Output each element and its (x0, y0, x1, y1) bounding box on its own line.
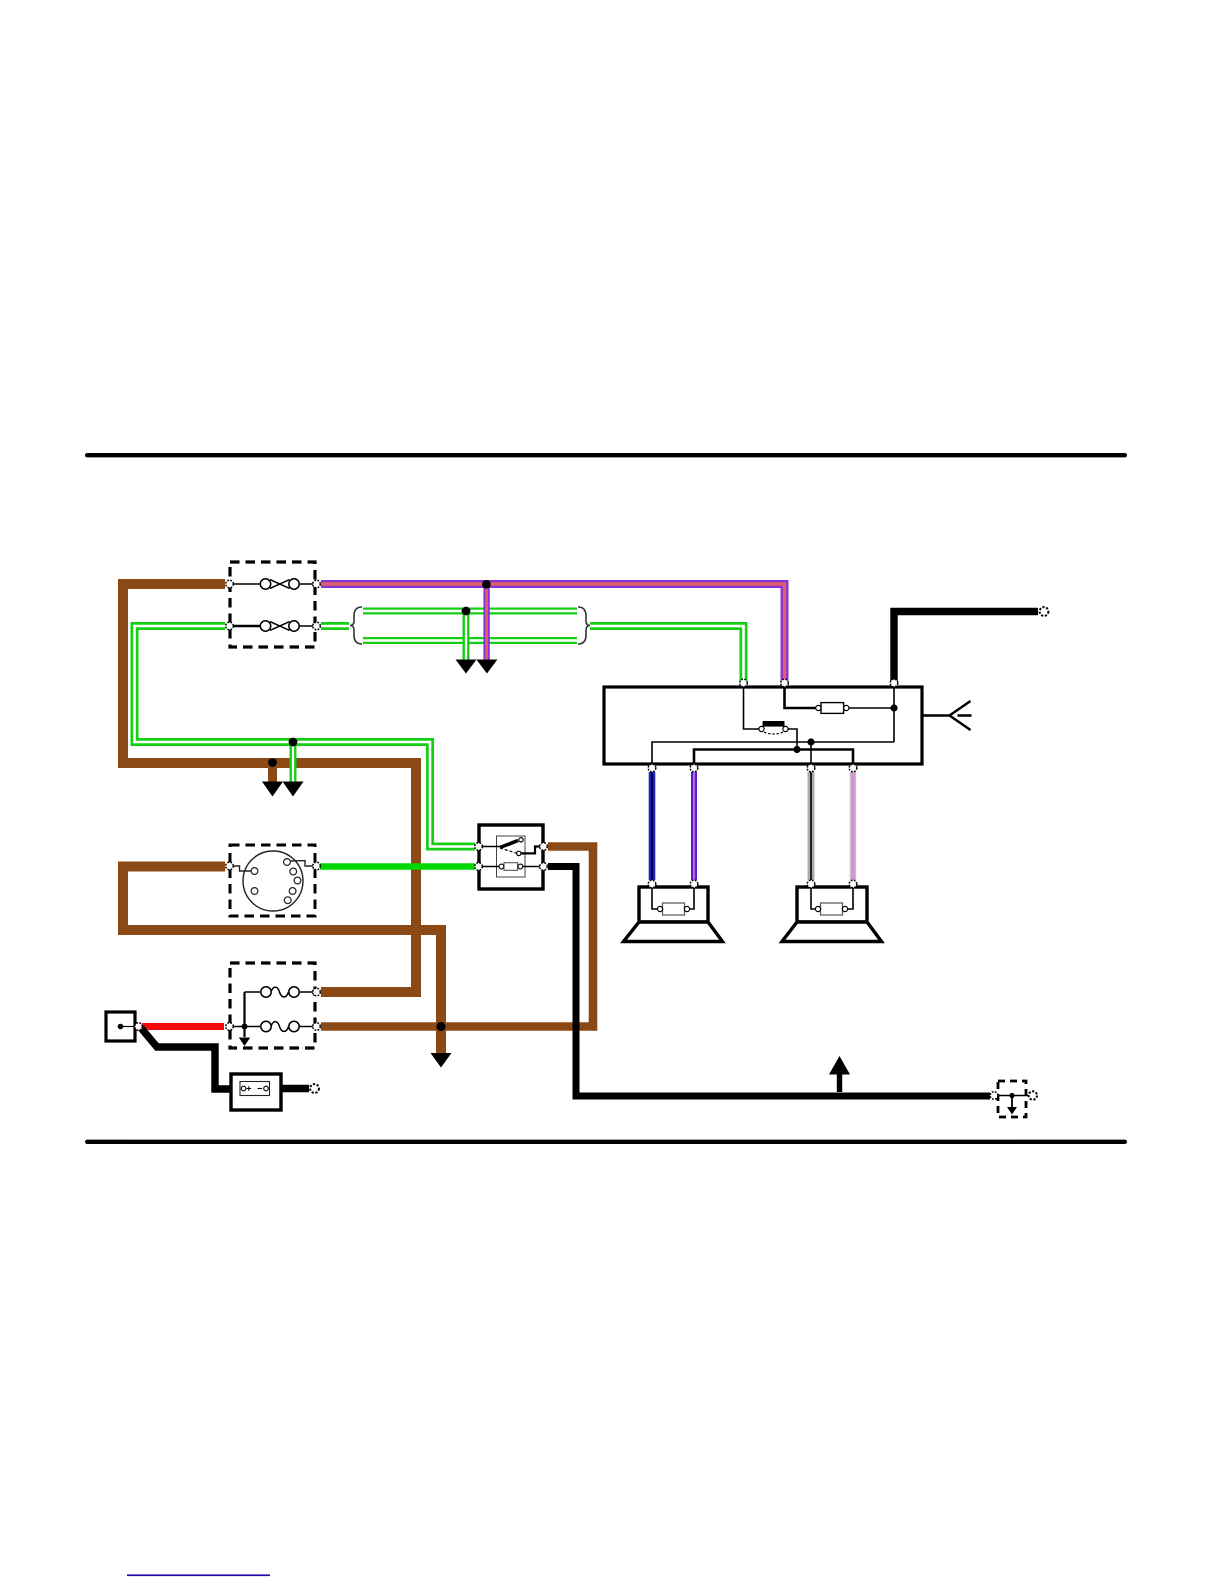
radio internal: black terminal vertical (893, 688, 895, 742)
junction dot brown 1 (268, 758, 277, 767)
radio terminals bottom (648, 764, 857, 772)
switch lower path (481, 866, 499, 868)
battery minus (258, 1088, 263, 1090)
wire brown: fusible link to radio switch (321, 847, 593, 1027)
wire black: solenoid to battery (141, 1028, 240, 1089)
radio internal: green feed to inductor (744, 688, 762, 729)
wire black: radio to antenna-lead terminal (894, 612, 1038, 684)
ignition terminals (226, 862, 321, 870)
fusible link internal arrow (239, 1038, 250, 1047)
right speaker coil (815, 903, 847, 915)
switch dashed throw (500, 848, 516, 853)
wire navy: radio to left speaker + (649, 772, 656, 880)
fusible link box (230, 963, 315, 1048)
wire black: radio switch to ground terminal (548, 867, 990, 1097)
up arrow on black wire (837, 1074, 842, 1092)
fusible link terminals (226, 988, 321, 1030)
fuse 2 (231, 621, 314, 631)
resistor (816, 703, 849, 714)
junction dot green 2 (462, 607, 471, 616)
wire red: solenoid to fusible link (142, 1023, 224, 1030)
right speaker terminals (807, 880, 857, 888)
ground arrow brown 1 (262, 782, 283, 797)
left speaker coil (657, 903, 689, 915)
ground connector dot (1009, 1093, 1014, 1098)
wire pink: radio to right speaker - (850, 772, 856, 880)
ignition switch box (230, 845, 315, 916)
footer link underline (127, 1574, 270, 1576)
switch contact to right terminal (521, 847, 542, 854)
fuse 1 (231, 579, 314, 589)
ignition wiring right (290, 861, 314, 866)
right speaker internals (811, 887, 816, 909)
wire green/white: fuse F1 right to brace (321, 622, 349, 630)
radio internal: line B (694, 750, 853, 764)
wire gray/black: radio to right speaker + (808, 772, 815, 880)
battery cell (240, 1082, 270, 1096)
radio internal: resistor to node (849, 707, 894, 709)
junction dot line A (807, 738, 814, 745)
wire purple drop to ground (483, 584, 489, 660)
wire green drop to ground (463, 611, 470, 660)
junction dot green 1 (289, 738, 298, 747)
ground connector box (998, 1081, 1026, 1117)
switch blade (500, 841, 518, 848)
switch terminals (475, 843, 548, 871)
wire green/white: bundle lower (363, 637, 577, 644)
radio terminals top (740, 679, 898, 687)
wire black: battery to ring terminal (270, 1085, 309, 1092)
ground arrow brown 2 (431, 1053, 452, 1068)
right speaker (782, 887, 882, 942)
ring terminal battery (310, 1084, 319, 1093)
wire green stub to ground (290, 742, 297, 782)
wire brown: fusebox F1 to fusible link box (123, 584, 416, 992)
brace close (578, 607, 590, 644)
left speaker (624, 887, 723, 942)
switch common line (481, 846, 500, 848)
switch resistor (499, 863, 523, 871)
wire green/white: bundle upper (363, 608, 577, 615)
inductor (759, 721, 788, 734)
fusible link internal bus (243, 992, 245, 1037)
battery plus (247, 1086, 251, 1090)
fusible link 2 (231, 1021, 314, 1031)
wire purple/red: fuse F1 to radio (321, 584, 785, 683)
radio unit box (604, 687, 922, 764)
starter solenoid box (106, 1012, 135, 1041)
fuse box F1 (230, 562, 315, 647)
terminals fuse box F1 (226, 580, 321, 630)
ground arrow green 2 (456, 660, 477, 674)
solenoid dot (118, 1024, 124, 1030)
brace open (350, 607, 362, 644)
ground arrow green 1 (283, 782, 304, 797)
junction dot resistor node (890, 704, 897, 711)
ignition wiring left (231, 866, 251, 871)
left speaker internals (652, 887, 658, 909)
radio internal: drop to terminal 3 (810, 742, 812, 763)
ignition pins (251, 859, 301, 904)
bottom rule (85, 1140, 1127, 1144)
junction dot purple (482, 580, 491, 589)
antenna lead (922, 701, 972, 730)
top rule (85, 453, 1127, 457)
radio internal: line A (652, 742, 894, 763)
radio switch box (479, 825, 543, 889)
solenoid lead (121, 1026, 135, 1028)
ground connector ring (1029, 1091, 1037, 1099)
wire green solid: ignition switch to radio switch (320, 863, 475, 870)
junction dot fusible link (242, 1024, 248, 1030)
ground connector arrow (1011, 1096, 1013, 1108)
battery box (231, 1074, 281, 1110)
wire brown: ground stub at junction (268, 763, 277, 782)
switch inner frame (497, 836, 526, 877)
solenoid terminal (135, 1023, 143, 1031)
junction dot brown 2 (436, 1022, 445, 1031)
ring terminal top right (1040, 607, 1049, 616)
ignition switch rotor (243, 851, 303, 911)
wire green/white: brace to radio (590, 626, 744, 683)
wire brown: ignition switch feed to ground (123, 867, 441, 1054)
junction dot line B (793, 746, 800, 753)
fusible link 1 (245, 987, 315, 997)
ground connector terminal left (990, 1092, 998, 1100)
radio internal: inductor to line B (788, 729, 797, 748)
left speaker terminals (648, 880, 698, 888)
wire violet: radio to left speaker - (691, 772, 697, 880)
wire green/white: fuse F1 down-around to radio switch (135, 626, 476, 847)
ground connector lead (994, 1095, 1028, 1097)
radio internal: purple feed to resistor (785, 688, 817, 708)
ground arrow purple (476, 660, 497, 674)
